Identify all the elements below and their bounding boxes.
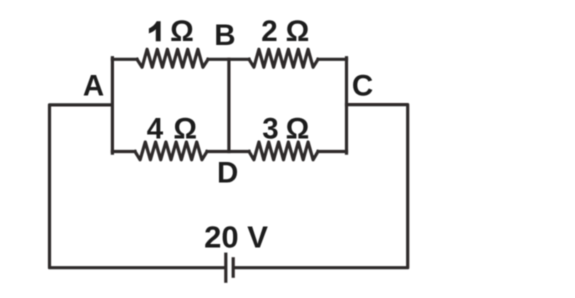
svg-text:Ω: Ω <box>286 15 310 48</box>
wire top-right stub <box>318 58 347 61</box>
label value 1 <box>149 21 161 41</box>
battery V1 short plate <box>232 259 235 276</box>
wire bottom-right stub <box>318 150 347 153</box>
svg-text:A: A <box>83 70 104 103</box>
wire top-left stub <box>112 58 137 61</box>
wire bottom-left stub <box>112 150 135 153</box>
resistor R4 4Ω zigzag <box>135 142 207 160</box>
wire bridge left edge <box>111 58 114 153</box>
battery V1 long plate <box>224 254 227 281</box>
svg-text:2: 2 <box>261 15 277 48</box>
wire node B to node D <box>227 59 230 151</box>
svg-text:B: B <box>214 19 235 52</box>
svg-text:20 V: 20 V <box>204 219 268 254</box>
wire right outer: battery positive to C <box>234 105 407 268</box>
resistor R1 1Ω zigzag <box>137 49 208 67</box>
wire top-middle through node B <box>208 58 249 61</box>
resistor R2 2Ω zigzag <box>249 49 318 67</box>
svg-text:3: 3 <box>262 112 278 145</box>
svg-text:4: 4 <box>147 112 164 145</box>
svg-text:Ω: Ω <box>286 112 310 145</box>
svg-text:Ω: Ω <box>173 112 197 145</box>
svg-text:Ω: Ω <box>170 15 194 48</box>
svg-text:C: C <box>352 70 373 103</box>
wire left outer: A to battery negative <box>50 105 225 268</box>
resistor R3 3Ω zigzag <box>249 142 318 160</box>
wire bottom-middle through node D <box>207 150 249 153</box>
svg-text:D: D <box>217 156 238 189</box>
wire bridge right edge <box>345 58 348 153</box>
